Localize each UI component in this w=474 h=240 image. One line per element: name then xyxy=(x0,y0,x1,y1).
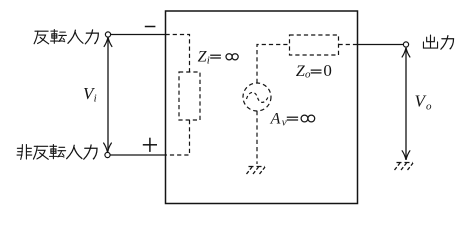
svg-text:A: A xyxy=(270,111,281,128)
svg-text:i: i xyxy=(207,55,210,67)
svg-text:o: o xyxy=(426,100,432,112)
svg-text:i: i xyxy=(94,93,97,105)
svg-text:o: o xyxy=(305,69,311,81)
svg-text:0: 0 xyxy=(323,61,332,80)
svg-text:v: v xyxy=(282,116,287,128)
